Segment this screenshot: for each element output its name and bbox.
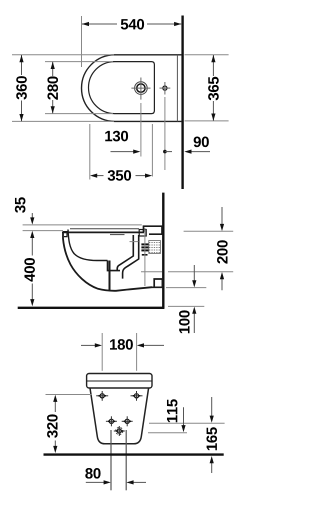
dim 280 ext bottom	[45, 113, 113, 115]
rim top thick	[62, 231, 144, 233]
floor ext right	[168, 305, 204, 307]
ext line rim top (35)	[23, 224, 142, 226]
ext line from small hole	[164, 97, 166, 170]
pipe centerline tick	[130, 241, 139, 243]
hatch block	[149, 241, 161, 254]
label 180	[110, 339, 133, 350]
label 90	[194, 137, 209, 148]
label 165	[206, 427, 217, 450]
dim 200 top ext	[184, 230, 234, 232]
rear step / tab top	[144, 226, 163, 234]
label 80	[85, 468, 100, 479]
dim 180 line	[81, 344, 96, 346]
front lip detail	[63, 232, 67, 237]
middle hole right	[122, 416, 133, 426]
bottom ext (bidet bottom)	[166, 287, 206, 289]
small hole crosshair	[160, 87, 171, 89]
drain center ext line	[141, 271, 162, 273]
label 35	[15, 197, 26, 213]
bidet profile outer	[63, 232, 152, 291]
dim 200 line top	[221, 207, 223, 225]
faucet hole outer circle	[135, 82, 148, 95]
inner outline (bowl rim)	[89, 62, 155, 114]
upper hole left	[96, 391, 108, 401]
pipes below	[110, 430, 112, 490]
bowl opening far edge	[70, 228, 139, 230]
dim 280 line	[52, 62, 54, 76]
nut bars	[141, 243, 148, 245]
shelf line	[110, 234, 125, 236]
dim 115 line+arrow	[183, 407, 185, 425]
dim 540 ext line	[81, 16, 83, 67]
dim 100 top arrow	[193, 265, 195, 281]
rim mid line	[87, 380, 152, 382]
leader line (115/165 top)	[149, 422, 225, 424]
dim 400 line	[31, 238, 33, 256]
dim 360 ext top	[12, 54, 114, 56]
bowl rear wall	[109, 261, 111, 291]
label 200	[217, 240, 228, 263]
label 320	[47, 414, 58, 437]
label 400	[24, 258, 35, 282]
faucet fitting rect	[139, 230, 146, 237]
wall (side view)	[162, 193, 164, 309]
outer outline (top view stadium)	[82, 55, 182, 122]
ext line rim front (35)	[23, 230, 63, 232]
drain hole	[114, 426, 125, 436]
body	[90, 388, 149, 444]
inner bowl curve	[68, 230, 108, 261]
label 280	[47, 76, 58, 99]
dim 350 ext left	[89, 124, 91, 180]
wall (top view)	[181, 16, 183, 190]
drain pipe outer	[123, 235, 139, 279]
dim 540 line	[82, 23, 118, 25]
dim 280 ext top	[45, 61, 113, 63]
bowl pocket	[108, 261, 121, 271]
dim 540 right arrow	[174, 22, 181, 26]
dim 350 line+arrows	[97, 175, 104, 177]
dim 80	[86, 481, 105, 483]
label 540	[121, 19, 144, 30]
dim 35 arrows	[31, 213, 33, 218]
dim 165 bottom arrow	[211, 463, 213, 473]
dim 365 line	[212, 55, 214, 76]
label 130	[105, 131, 128, 142]
drain centerline	[144, 228, 146, 286]
dim 90 tail+arrow	[191, 151, 210, 153]
faucet crosshair	[131, 87, 150, 89]
dim 320 line	[54, 402, 56, 413]
leader line (drain row)	[148, 432, 187, 434]
dim 360 line	[21, 55, 23, 75]
floor (side view)	[18, 307, 165, 309]
label 100	[179, 310, 190, 333]
faucet hole inner circle	[137, 84, 145, 92]
ext line from faucet	[140, 103, 142, 157]
dim 360 ext bottom	[12, 120, 114, 122]
dim 165 top arrow	[211, 397, 213, 416]
dim 180 ext lines	[101, 333, 103, 371]
dim 365 ext bottom	[185, 120, 229, 122]
dim 365 ext top	[185, 54, 229, 56]
dim 350 ext right	[151, 124, 153, 177]
dim 200 line bottom	[221, 279, 223, 290]
rear inner edge line	[176, 55, 178, 122]
small hole circle	[163, 86, 167, 90]
junction dot 130/90	[163, 150, 167, 154]
rim block	[87, 374, 152, 389]
floor (front view)	[44, 453, 224, 455]
dim 320 ext top	[46, 394, 93, 396]
middle hole left	[106, 416, 117, 426]
label 115	[167, 399, 177, 422]
dim 540 left arrow	[82, 22, 89, 26]
rear bottom tab	[152, 279, 162, 287]
dim 130 tail+arrow	[111, 151, 134, 153]
label 360	[16, 76, 27, 99]
drain pipe inner	[117, 235, 133, 271]
dim 100 bottom arrow	[193, 313, 195, 333]
upper hole right	[131, 391, 143, 401]
label 350	[108, 170, 131, 181]
label 365	[208, 77, 219, 101]
